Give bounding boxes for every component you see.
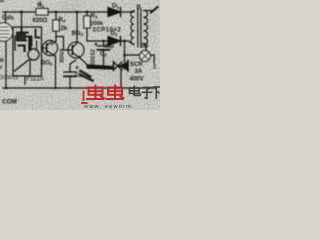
node rail junctions [5, 87, 119, 89]
paper speck [0, 0, 4, 3]
wire left drop to Cds [5, 12, 7, 23]
svg-text:R3: R3 [91, 14, 98, 20]
wire SCR anode drop [124, 41, 126, 62]
svg-text:BG3: BG3 [72, 31, 84, 37]
svg-text:620Ω: 620Ω [33, 18, 48, 24]
wire IC supply drop [21, 12, 23, 27]
svg-text:400V: 400V [130, 76, 144, 82]
svg-text:COM: COM [2, 99, 17, 106]
transformer core [138, 9, 141, 47]
wire transformer to lamp top [144, 45, 146, 51]
node BG3 collector top [76, 11, 79, 14]
wire to lamp [125, 54, 140, 56]
IC internal dark patch [18, 34, 27, 40]
svg-text:B: B [137, 5, 142, 11]
wire C2 stem [103, 41, 105, 46]
transistor BG3 [68, 42, 84, 59]
svg-text:22μ: 22μ [104, 44, 114, 50]
wire IC output pin to ground [24, 76, 26, 84]
transformer B right winding [144, 11, 148, 45]
wire Cds down to bottom rail [5, 41, 7, 88]
svg-text:W: W [0, 58, 4, 64]
node lamp branch [123, 54, 126, 57]
svg-text:+: + [94, 42, 98, 49]
resistor R1 [36, 9, 48, 16]
node C2 top [102, 40, 105, 43]
photoresistor Cds [0, 23, 13, 41]
svg-text:R1: R1 [38, 3, 45, 9]
transistor BG2 [42, 40, 57, 56]
wire D2 to transformer [121, 41, 135, 45]
transformer B left winding [131, 11, 134, 45]
svg-text:D1: D1 [112, 4, 119, 10]
bottom rail [3, 87, 156, 89]
lamp ZD [140, 51, 151, 62]
ink blotch at gate junction [80, 71, 93, 81]
svg-text:F112A: F112A [27, 77, 44, 83]
node R3 top [86, 11, 89, 14]
svg-text:SCR: SCR [130, 62, 143, 68]
wire R4 top [55, 12, 57, 20]
node R4 top [55, 11, 58, 14]
wire R4 to BG2 collector [55, 31, 57, 41]
IC internal vertical to pin [29, 60, 31, 76]
svg-text:ZD: ZD [141, 44, 150, 50]
svg-text:2CP10×2: 2CP10×2 [93, 28, 122, 34]
svg-text:200k: 200k [91, 21, 104, 27]
wire C2 to gate line [103, 50, 105, 66]
wire R3 down to D2 line [87, 28, 108, 41]
wire D1 to transformer [121, 11, 135, 13]
wire top rail left [3, 11, 36, 13]
IC internal transistor [28, 41, 39, 60]
svg-text:Cds: Cds [2, 15, 14, 22]
wire lamp right terminal [150, 55, 154, 64]
diode D1 [108, 8, 121, 17]
wire C3 to bottom rail [69, 77, 71, 89]
IC U1 box F112A [13, 27, 42, 76]
wire R3 top [86, 12, 88, 16]
svg-text:2: 2 [153, 65, 156, 71]
wire BG2 emitter to bottom rail [55, 57, 57, 89]
svg-text:2CW11: 2CW11 [0, 75, 18, 81]
wire IC pin to BG2 base [42, 47, 47, 49]
svg-text:+: + [75, 65, 79, 72]
wire BG3 collector [76, 12, 78, 43]
IC internal diagonal wire [15, 60, 29, 71]
svg-text:BG2: BG2 [41, 61, 53, 67]
SCR V1 (triac) [114, 61, 129, 72]
wire SCR gate (thick smudged) [87, 64, 114, 69]
wire SCR cathode to bottom rail [120, 70, 122, 88]
wire C3 stem [70, 60, 76, 72]
svg-text:3DG12: 3DG12 [91, 49, 97, 67]
wire BG2 collector to BG3 base [56, 37, 73, 51]
svg-text:R4: R4 [59, 18, 66, 24]
watermark red bug char 2 [106, 85, 125, 100]
paper background [0, 0, 160, 110]
text labels [0, 3, 156, 106]
watermark red fragment [81, 91, 88, 104]
stray tick mark [39, 1, 41, 6]
IC internal bus bar [28, 37, 30, 49]
node top rail / IC supply [20, 11, 23, 14]
svg-text:3A: 3A [135, 69, 143, 75]
diode D2 [108, 37, 121, 46]
node D2 cathode [123, 40, 126, 43]
svg-text:www. eeworm.: www. eeworm. [83, 104, 135, 110]
capacitor C2 [98, 46, 110, 50]
capacitor C3 [64, 72, 76, 76]
watermark gray characters dianzi [130, 86, 161, 100]
svg-text:2k: 2k [61, 26, 68, 32]
svg-text:C3: C3 [75, 73, 82, 79]
wire BG3 emitter to gate node [81, 59, 88, 68]
watermark red bug char 1 [86, 85, 105, 100]
resistor R4 [53, 20, 59, 31]
IC internal logic block [15, 28, 40, 51]
resistor R3 [84, 16, 90, 28]
svg-text:C2: C2 [100, 52, 107, 58]
wire primary top terminal [144, 10, 152, 12]
wire top rail mid [48, 11, 108, 13]
svg-text:3DG6: 3DG6 [60, 48, 66, 63]
